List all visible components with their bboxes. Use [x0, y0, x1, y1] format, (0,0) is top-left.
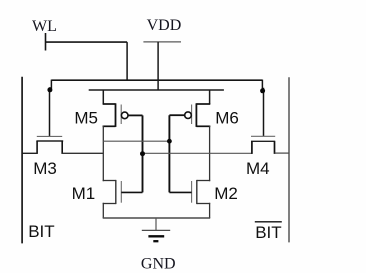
node dot A [167, 139, 172, 144]
svg-text:M2: M2 [214, 184, 238, 203]
svg-text:BIT: BIT [28, 222, 54, 241]
M6 gate bubble [185, 112, 192, 119]
svg-text:M6: M6 [215, 108, 239, 127]
wire WL rail left drop [50, 80, 52, 137]
M5 gate bubble [121, 112, 128, 119]
wire cross-couple A (Q to right gate) [103, 140, 169, 142]
svg-text:M3: M3 [33, 159, 57, 178]
M6 source stub [196, 103, 210, 105]
M2 gate bar [191, 181, 193, 203]
svg-text:BIT: BIT [255, 223, 281, 242]
M1 gate bar [120, 181, 122, 203]
svg-text:VDD: VDD [147, 17, 182, 34]
M6 gate wire [169, 114, 184, 116]
M4 lead right [274, 141, 276, 154]
wire left gate vertical (input of M5/M1) [142, 115, 144, 192]
svg-text:M5: M5 [74, 108, 98, 127]
wire GND stem [155, 218, 157, 230]
wire M3 to BIT [22, 152, 37, 154]
WL terminal tick [45, 33, 47, 51]
wire ground rail [103, 217, 211, 219]
wire right gate vertical (input of M6/M2) [168, 115, 170, 192]
wire right inverter chain (node QB) [209, 126, 211, 182]
node dot B [140, 151, 145, 156]
M3 lead left [36, 141, 38, 154]
ground symbol bar 2 [148, 235, 164, 237]
node dot right WL [260, 88, 265, 93]
wire WL rail right drop [262, 80, 263, 137]
BIT line (left column) [21, 77, 23, 244]
M5 channel bar [115, 103, 117, 127]
svg-text:WL: WL [32, 18, 57, 35]
node dot left WL [47, 87, 52, 92]
wire WL horizontal [46, 41, 128, 43]
M3 gate bar [37, 135, 62, 137]
M4 channel bar [251, 140, 275, 142]
transistor M1 (NMOS driver, left) [103, 180, 143, 204]
wire left inverter chain (node Q) [102, 126, 104, 182]
svg-text:M1: M1 [72, 184, 96, 203]
M2 channel bar [196, 180, 198, 204]
M2 source stub [197, 203, 210, 205]
transistor M5 (PMOS) [103, 90, 143, 127]
M5 gate wire [128, 114, 143, 116]
transistor M2 (NMOS driver, right) [169, 180, 210, 204]
M4 lead left [251, 141, 253, 154]
wire VDD rail [89, 89, 224, 91]
wire VDD vertical [157, 42, 159, 90]
wire cross-couple B (QB to left gate) [143, 152, 252, 154]
M1 drain stub [103, 180, 116, 182]
M6 drain stub [196, 125, 210, 127]
wire M3 to node Q [62, 152, 103, 154]
wire M2 source down [209, 203, 211, 218]
M2 drain stub [197, 180, 210, 182]
wire WL drop to word-line rail [126, 42, 128, 80]
BITB line (right column) [288, 77, 290, 242]
M5 gate bar [120, 105, 122, 125]
M4 gate bar [251, 135, 275, 137]
M3 channel bar [36, 140, 63, 142]
svg-text:M4: M4 [246, 159, 270, 178]
M5 drain stub [103, 125, 116, 127]
M5 source drop [102, 90, 104, 105]
M2 gate wire [169, 191, 191, 193]
VDD terminal bar [143, 41, 181, 43]
ground symbol bar 1 [142, 229, 170, 231]
svg-text:GND: GND [141, 255, 176, 272]
M5 source stub [103, 103, 116, 105]
ground symbol bar 3 [153, 240, 158, 242]
M1 gate wire [121, 191, 142, 193]
M6 channel bar [195, 103, 197, 127]
M3 lead right [61, 141, 63, 154]
M1 source stub [103, 203, 116, 205]
wire M1 source down [102, 203, 104, 218]
M1 channel bar [115, 180, 117, 204]
M6 source drop [209, 90, 211, 105]
transistor M4 (NMOS access, right) [251, 136, 289, 154]
transistor M6 (PMOS) [169, 90, 210, 127]
BITB overline [255, 221, 282, 223]
M6 gate bar [191, 105, 193, 125]
wire M4 to BITB [275, 152, 290, 154]
transistor M3 (NMOS access, left) [22, 136, 103, 154]
wire WL rail [51, 79, 262, 81]
